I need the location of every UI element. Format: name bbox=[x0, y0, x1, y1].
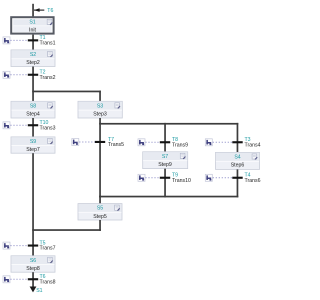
svg-text:Trans7: Trans7 bbox=[40, 246, 56, 252]
step S8 Step4 bbox=[11, 101, 55, 118]
svg-text:S8: S8 bbox=[30, 103, 36, 109]
wire branch col2 drop bbox=[99, 91, 101, 102]
svg-text:S6: S6 bbox=[30, 258, 36, 264]
dashed link T3 bbox=[213, 141, 233, 143]
svg-text:Step2: Step2 bbox=[26, 60, 40, 66]
condition icon T10 bbox=[3, 122, 10, 129]
svg-text:S1: S1 bbox=[29, 20, 35, 26]
dashed link T8 bbox=[145, 141, 159, 143]
jump-in arrow from T6 bbox=[34, 8, 44, 12]
svg-text:S1: S1 bbox=[36, 288, 42, 294]
step S7 Step9 bbox=[143, 152, 188, 169]
transition T3 bbox=[232, 137, 260, 148]
svg-text:T6: T6 bbox=[47, 8, 53, 14]
condition icon T8 bbox=[138, 139, 145, 146]
svg-text:Step4: Step4 bbox=[26, 112, 40, 118]
step S5 Step5 bbox=[78, 204, 122, 220]
svg-text:Trans2: Trans2 bbox=[40, 75, 56, 81]
dashed link T10 bbox=[10, 124, 27, 126]
wire col2 below S5 bbox=[99, 220, 101, 231]
inner join line (alternative convergence) bbox=[99, 196, 238, 198]
wire bbox=[32, 4, 34, 17]
svg-text:S2: S2 bbox=[30, 52, 36, 58]
wire col2 through T7 to join bbox=[99, 123, 101, 197]
transition T5 bbox=[28, 240, 56, 251]
dashed link T6 bbox=[10, 278, 27, 280]
inner branch line (alternative divergence after Step3) bbox=[99, 123, 238, 125]
wire bbox=[32, 67, 34, 102]
transition T4 bbox=[232, 173, 260, 184]
dashed link T1 bbox=[10, 39, 27, 41]
svg-text:Trans3: Trans3 bbox=[40, 125, 56, 131]
condition icon T5 bbox=[3, 242, 10, 249]
dashed link T7 bbox=[79, 141, 95, 143]
svg-text:Trans1: Trans1 bbox=[40, 41, 56, 47]
step S6 Step8 bbox=[11, 256, 55, 272]
svg-text:Trans5: Trans5 bbox=[108, 142, 124, 148]
dashed link T4 bbox=[213, 177, 233, 179]
wire col4 below S4 bbox=[237, 169, 239, 197]
outer join line back to col1 bbox=[32, 229, 101, 231]
condition icon T6 bbox=[3, 276, 10, 283]
branch line (simultaneous divergence after T2) bbox=[32, 91, 101, 93]
wire col1 below S6 bbox=[32, 272, 34, 287]
step S4 Step6 bbox=[216, 152, 260, 169]
transition T1 bbox=[28, 35, 56, 46]
transition T10 bbox=[28, 120, 56, 131]
svg-text:Step6: Step6 bbox=[231, 163, 245, 169]
wire col1 long bbox=[32, 153, 34, 256]
condition icon T3 bbox=[205, 139, 212, 146]
svg-text:S7: S7 bbox=[162, 154, 168, 160]
jump-out arrow to S1 bbox=[30, 287, 37, 293]
condition icon T4 bbox=[205, 174, 212, 181]
svg-text:Step9: Step9 bbox=[158, 162, 172, 168]
step S3 Step3 bbox=[78, 101, 122, 118]
svg-text:Trans6: Trans6 bbox=[245, 178, 261, 184]
svg-text:Step7: Step7 bbox=[26, 147, 40, 153]
transition T8 bbox=[160, 137, 188, 148]
svg-text:Trans9: Trans9 bbox=[172, 142, 188, 148]
wire col4 drop bbox=[237, 123, 239, 153]
wire col3 below S7 bbox=[164, 169, 166, 198]
svg-text:Trans8: Trans8 bbox=[40, 279, 56, 285]
svg-text:Step3: Step3 bbox=[93, 112, 107, 118]
svg-text:Trans4: Trans4 bbox=[245, 142, 261, 148]
svg-text:Trans10: Trans10 bbox=[172, 178, 191, 184]
svg-text:Step8: Step8 bbox=[26, 266, 40, 272]
condition icon T1 bbox=[3, 37, 10, 44]
svg-text:S3: S3 bbox=[97, 103, 103, 109]
transition T9 bbox=[160, 173, 191, 184]
svg-text:S5: S5 bbox=[97, 206, 103, 212]
transition T6 bbox=[28, 274, 56, 285]
wire col1 bbox=[32, 118, 34, 137]
dashed link T5 bbox=[10, 245, 27, 247]
step S9 Step7 bbox=[11, 137, 55, 153]
transition T2 bbox=[28, 70, 56, 81]
dashed link T9 bbox=[145, 177, 159, 179]
condition icon T2 bbox=[3, 71, 10, 78]
wire col2 to S5 bbox=[99, 196, 101, 204]
svg-text:S4: S4 bbox=[234, 154, 240, 160]
wire bbox=[32, 35, 34, 50]
wire col3 drop bbox=[164, 123, 166, 152]
step S2 Step2 bbox=[11, 50, 55, 67]
transition T7 bbox=[95, 137, 124, 148]
svg-text:S9: S9 bbox=[30, 139, 36, 145]
step S1 Init (initial step, double border) bbox=[11, 17, 53, 33]
wire col2 drop to inner branch bbox=[99, 118, 101, 124]
condition icon T9 bbox=[138, 174, 145, 181]
dashed link T2 bbox=[10, 74, 27, 76]
condition icon T7 bbox=[72, 139, 79, 146]
svg-text:Step5: Step5 bbox=[93, 214, 107, 220]
svg-text:Init: Init bbox=[29, 27, 36, 33]
